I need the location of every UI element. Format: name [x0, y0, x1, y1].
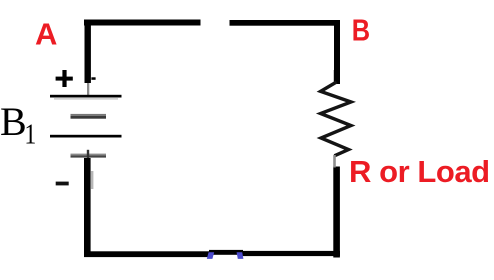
wire top-left horizontal segment (node A side) — [84, 20, 201, 26]
faint gray artifact beside battery bottom lead — [91, 171, 94, 189]
wire right vertical lower (resistor down to bottom wire) — [333, 167, 340, 258]
svg-text:1: 1 — [24, 119, 36, 150]
battery B1 positive long plate (top) — [50, 95, 122, 100]
junction mark blue left — [207, 252, 214, 259]
resistor R zigzag — [321, 70, 351, 168]
wire bottom-middle horizontal segment (slightly raised) — [209, 250, 243, 255]
battery minus sign — [56, 182, 69, 186]
svg-text:R or Load: R or Load — [349, 154, 490, 189]
svg-text:A: A — [35, 17, 57, 52]
wire battery bottom lead vertical — [84, 158, 91, 252]
wire right vertical upper (node B down to resistor) — [334, 20, 340, 84]
battery B1 short plate (upper negative, gray) — [71, 114, 107, 119]
junction mark blue right — [237, 252, 244, 259]
wire thin gray lead into battery top plate — [87, 83, 89, 96]
battery reference label B1 — [0, 99, 36, 150]
svg-text:B: B — [0, 99, 27, 144]
wire bottom-right horizontal segment — [241, 251, 340, 256]
wire bottom-left horizontal segment — [84, 251, 210, 257]
wire top-right horizontal segment (node B side) — [230, 20, 341, 26]
wire left vertical (from top wire down to battery +) — [85, 20, 91, 84]
svg-text:B: B — [352, 13, 370, 48]
battery plus sign — [56, 70, 96, 87]
battery B1 long plate (lower positive) — [50, 135, 122, 138]
battery B1 short plate (bottom negative, gray) — [71, 150, 107, 159]
